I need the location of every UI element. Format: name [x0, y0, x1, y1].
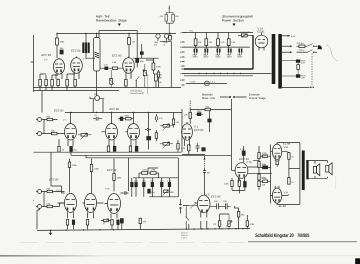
wire V1 grid node: [190, 110, 209, 120]
tube V6b row3: [105, 194, 121, 219]
terminal strip ticks: [180, 32, 185, 86]
wire riser x42 to row2: [41, 91, 43, 113]
cathode cap V1 mixer: [196, 143, 200, 152]
resistor R-plate-V3 4,7k: [56, 34, 66, 59]
wire tone right riser: [181, 109, 183, 152]
tube V2b ECC82: [102, 108, 120, 146]
svg-text:ECC 83: ECC 83: [49, 179, 59, 182]
wire NTC riser: [282, 61, 298, 78]
svg-text:Hall ein/aus: Hall ein/aus: [131, 90, 143, 93]
wire B+ riser row2: [96, 88, 98, 96]
text riser labels: [158, 74, 162, 85]
resistor grid stopper row2 jack2: [44, 129, 65, 134]
mains cord curve: [326, 45, 338, 62]
cathode resistor 2: [51, 75, 54, 91]
cathode capacitor 2: [57, 79, 60, 88]
wire top bus: [57, 33, 176, 35]
tube V1a row3: [58, 194, 77, 219]
reverb spring unit: [94, 34, 101, 88]
wire plate V4b right: [86, 57, 159, 59]
wire tone bottom: [149, 196, 178, 198]
capacitor V5 grid input: [179, 199, 182, 214]
switch linkage dashed: [311, 54, 313, 88]
resistor 470k right: [152, 58, 162, 74]
wire interstage feed 2: [86, 155, 178, 197]
cathode cap V2b: [113, 146, 116, 151]
svg-text:350V: 350V: [237, 56, 243, 59]
wire V5 feed from row2: [203, 156, 211, 195]
text Hall ein/aus: [131, 90, 144, 96]
svg-text:ECC 82: ECC 82: [112, 55, 122, 58]
svg-text:ECC 82: ECC 82: [211, 196, 221, 199]
capacitor electrolytic bank 3: [215, 49, 221, 59]
tube V5 driver ECC82: [196, 194, 221, 218]
cathode cap V6a: [135, 146, 138, 151]
wire V7a couplings: [232, 160, 272, 193]
wire B+ riser row3: [50, 152, 52, 186]
svg-text:350V: 350V: [227, 56, 233, 59]
tube V1 mixer ECC83: [182, 122, 204, 146]
svg-text:Ⅱ: Ⅱ: [33, 200, 34, 203]
cathode capacitor V3: [45, 75, 48, 91]
cathode cap V2a: [70, 147, 78, 152]
NTC resistor box 2: [296, 74, 306, 79]
svg-text:1M: 1M: [132, 41, 135, 44]
resistor below V7a 1k: [238, 178, 240, 190]
resistor grid jack2 row3: [44, 202, 65, 207]
faint cabinet mark: [335, 176, 337, 189]
wire bottom bus 1: [34, 87, 182, 89]
capacitor electrolytic bank 2: [203, 49, 209, 59]
cathode cap V6b row3: [117, 220, 119, 225]
svg-text:100p: 100p: [197, 110, 203, 113]
wire mixer long riser: [231, 99, 233, 170]
resistor tone top 2: [150, 169, 159, 175]
svg-text:V 9: V 9: [284, 192, 289, 195]
tube V7a phase splitter: [232, 158, 253, 183]
svg-text:V 7a: V 7a: [246, 161, 252, 164]
cathode cap V1a row3: [72, 220, 74, 225]
wire heater 6,3V arrow: [282, 35, 296, 38]
potentiometer treble row2: [160, 124, 173, 131]
section divider connector: [220, 96, 247, 98]
cathode resistor group V3: [39, 74, 42, 91]
svg-text:350V: 350V: [193, 56, 199, 59]
svg-text:6,3V~: 6,3V~: [191, 80, 197, 83]
capacitor tone 5: [167, 178, 172, 197]
grid capacitor mid left: [261, 163, 271, 169]
ground bus: [37, 229, 250, 231]
capacitor tone 2: [142, 178, 146, 197]
fuse Si 0,8A: [297, 42, 308, 47]
svg-text:V 8: V 8: [284, 146, 289, 149]
wire HT mid rail: [184, 46, 250, 48]
svg-text:ECC 82: ECC 82: [107, 169, 117, 172]
node dots heater rail: [198, 73, 241, 74]
wire heater rail: [184, 73, 272, 75]
node dots on top bus: [56, 33, 170, 34]
jack input I-2: [33, 192, 44, 209]
svg-text:350V: 350V: [203, 56, 209, 59]
cathode resistor V1b row3: [86, 220, 88, 226]
cathode resistor V4b: [125, 79, 128, 88]
lamp filter B+ row2: [90, 93, 104, 101]
svg-text:Si 0,8A: Si 0,8A: [297, 42, 305, 45]
cathode resistor V4a: [66, 74, 69, 91]
svg-text:Schaltbild Kingstar 20: Schaltbild Kingstar 20: [255, 233, 294, 239]
svg-text:Reverb on/off: Reverb on/off: [131, 92, 144, 95]
potentiometer balance: [226, 214, 232, 229]
tube V2a ECC83: [54, 110, 77, 147]
tube V3 ECC83 triode: [42, 54, 65, 79]
wire jack return riser: [160, 41, 171, 87]
resistor plate V1b row3: [90, 159, 99, 194]
svg-text:6,3V: 6,3V: [291, 35, 296, 38]
jack input II-1: [36, 118, 44, 122]
capacitor coupling row3 a: [121, 191, 129, 195]
power transformer primary bar: [272, 34, 276, 84]
resistor mid row2: [155, 130, 157, 141]
text ECC82 row3: [105, 169, 117, 191]
header Hall-Teil / Reverberation Stage: [96, 15, 127, 27]
voltage note text: [181, 232, 189, 240]
wire row2 plate rail: [65, 112, 182, 114]
wire row3 upper link: [51, 186, 65, 193]
jack riser capacitor: [140, 44, 143, 58]
wire tank to V4b grid: [100, 67, 123, 69]
svg-text:350V: 350V: [215, 56, 221, 59]
text Endstufe Output Stage: [249, 94, 266, 100]
resistor 2 right column: [155, 74, 162, 88]
resistor V7a tail: [237, 208, 245, 229]
wire tone slider riser: [128, 158, 130, 191]
tube V9 EL84: [272, 186, 288, 208]
resistor pilot dropper: [297, 65, 300, 70]
resistor plate V6b row3: [113, 159, 122, 192]
resistor V5 right: [246, 215, 255, 229]
wire tone mid bus: [133, 177, 178, 179]
capacitor C coupling 10n: [60, 47, 64, 54]
ground stubs row3: [37, 209, 247, 230]
resistor below V7a 220k: [224, 178, 233, 190]
capacitor below V7a: [244, 182, 247, 191]
resistor bottom row3: [139, 218, 147, 229]
capacitor electrolytic bank 5: [237, 49, 243, 59]
potentiometer bass row2: [160, 142, 173, 149]
resistor 1M above V4b: [128, 34, 136, 58]
resistor right column extra: [157, 70, 159, 88]
loudspeaker LS2: [326, 163, 332, 175]
resistor on riser 4,7k: [169, 34, 172, 41]
svg-text:Reverberation Stage: Reverberation Stage: [96, 19, 127, 23]
mains switch pole 2: [307, 50, 317, 53]
capacitor electrolytic bank 1: [193, 49, 199, 59]
svg-text:out: out: [154, 43, 157, 46]
capacitor V7a plate 4,7n: [240, 146, 245, 163]
resistor grid V1: [184, 108, 191, 124]
power transformer secondary bar: [278, 34, 282, 89]
svg-text:Power Section: Power Section: [222, 19, 244, 23]
resistor smoothing 4: [227, 33, 236, 49]
output transformer secondary bar: [306, 160, 308, 179]
capacitor electrolytic 25u row2: [147, 137, 151, 140]
wire reverb left stub: [31, 61, 34, 63]
resistor mixer right 4: [258, 181, 266, 190]
resistor smoothing 2: [205, 33, 213, 49]
svg-text:EZ 81: EZ 81: [258, 31, 266, 34]
capacitor coupling mid: [118, 117, 123, 121]
wire row2 bottom bus: [34, 151, 182, 153]
wire reverb internal: [40, 58, 153, 75]
svg-text:1M: 1M: [176, 121, 179, 124]
output transformer primary line: [299, 143, 301, 205]
wire tank top feed: [99, 31, 137, 56]
svg-text:EL 84: EL 84: [283, 143, 290, 146]
capacitor coupling row2 1n: [93, 114, 102, 121]
capacitor treble 4,7n: [156, 114, 164, 122]
potentiometer tone row3: [163, 190, 175, 196]
resistor plate V1a row3: [68, 159, 77, 193]
screen resistor V9: [282, 178, 295, 196]
faint crease line left: [20, 242, 245, 244]
NTC resistor box 1: [296, 60, 306, 65]
svg-text:≙ 52 V: ≙ 52 V: [181, 236, 188, 239]
wire tone input riser: [148, 113, 150, 150]
wire row3 links: [58, 192, 129, 204]
wire mains line 2: [282, 51, 308, 53]
svg-text:ECC 83: ECC 83: [54, 110, 64, 113]
wire V1 feed dashed: [189, 101, 191, 109]
tube V4a ECC82 triode: [71, 50, 87, 80]
wire secondary top: [309, 160, 328, 162]
resistor grid jack1 row3: [44, 187, 58, 192]
tube V8 EL84: [272, 143, 290, 161]
resistor tone out 470k: [177, 140, 179, 152]
corner scan mark: [355, 258, 360, 264]
wire tone top links: [139, 168, 159, 178]
svg-text:Output Stage: Output Stage: [249, 97, 266, 100]
resistor tone out 1M: [172, 113, 179, 128]
mains switch pole 1: [307, 44, 317, 47]
capacitor 50u row3: [148, 189, 156, 194]
resistor smoothing 1: [194, 33, 202, 49]
wire bottom bus 2: [34, 90, 120, 92]
selenium rectifier B250C75: [238, 31, 253, 37]
svg-text:ECC 83: ECC 83: [42, 54, 52, 57]
header Stromversorgungsteil / Power Section: [222, 15, 253, 27]
svg-text:EL 84: EL 84: [279, 205, 286, 208]
resistor mixer right 2: [258, 162, 267, 175]
tube pin seals: [56, 69, 279, 213]
svg-text:1,5M: 1,5M: [150, 169, 155, 172]
wire heater rail 2: [184, 75, 253, 77]
capacitor V5 out 2: [222, 200, 230, 209]
svg-text:Mixer Unit: Mixer Unit: [202, 97, 215, 100]
capacitor tone left: [131, 178, 134, 197]
svg-text:82k: 82k: [160, 15, 163, 18]
svg-text:82k: 82k: [175, 15, 178, 18]
resistor 68k horizontal: [205, 105, 215, 110]
potentiometer Hall volume: [109, 70, 114, 88]
resistor coupling 560k: [123, 114, 134, 120]
cathode resistor V2a: [58, 139, 65, 152]
jack Hall output: [154, 34, 160, 47]
svg-text:1M: 1M: [159, 77, 162, 80]
svg-text:B 250 C75: B 250 C75: [240, 31, 251, 34]
resistor V5 tail 1: [213, 214, 221, 229]
faint crease line lower: [0, 255, 360, 257]
cathode resistor V4a-2: [74, 79, 77, 88]
jack Hall input: [164, 34, 169, 47]
tube V4b ECC82 triode: [112, 55, 134, 80]
capacitor bottom row3: [120, 219, 123, 230]
output balance bridge network: [160, 5, 179, 33]
wire screen tap to OT: [289, 167, 300, 169]
capacitor V1 plate: [208, 119, 211, 132]
title underline: [248, 241, 357, 243]
wire HT return heavy: [184, 35, 253, 69]
output transformer core bar: [302, 151, 305, 191]
wire mains line 1 to fuse: [282, 45, 293, 47]
wire V1 mixer bottom: [182, 154, 205, 156]
capacitor electrolytic 50u: [136, 55, 145, 67]
capacitor tone 3: [150, 178, 154, 197]
svg-text:ECC 82: ECC 82: [71, 50, 81, 53]
capacitor V5 out 1: [214, 200, 222, 209]
chassis ground symbol: [49, 230, 53, 235]
screen resistor V8: [282, 152, 295, 178]
wire B+ drops row2: [90, 97, 103, 113]
wire HT top bus: [184, 32, 253, 34]
tube V1b row3: [83, 194, 97, 219]
potentiometer reverb mix: [143, 64, 148, 88]
cathode resistor V1 mixer: [181, 145, 190, 155]
reverb drive transformer Tr: [82, 34, 89, 59]
svg-text:700/925: 700/925: [297, 233, 309, 239]
wire secondary bottom: [309, 177, 328, 179]
wire output left riser: [271, 145, 273, 204]
wire speaker stubs: [315, 161, 327, 179]
reverb switch Hall ein/aus: [136, 76, 140, 87]
electrolytic V1 mixer: [202, 148, 205, 151]
tube V6a ECC82: [126, 113, 140, 147]
capacitor tone 4: [160, 178, 164, 197]
svg-text:220 V~: 220 V~: [299, 49, 307, 52]
jack input II-2: [36, 120, 44, 136]
capacitor input V1: [196, 110, 203, 116]
cathode resistor V2b: [107, 146, 109, 152]
switch V5 lower: [186, 206, 189, 230]
wire left vertical bus: [33, 35, 35, 92]
dark scan edge bottom left: [0, 255, 102, 257]
svg-text:ECC 82: ECC 82: [110, 108, 120, 111]
cathode resistor V6a: [129, 146, 131, 152]
pilot lamp La1: [186, 80, 227, 85]
resistor grid stopper row2: [44, 115, 58, 120]
resistor grid V4b: [112, 61, 118, 70]
svg-text:V 6a: V 6a: [105, 188, 110, 191]
wire interstage feed 1: [71, 152, 232, 155]
node dots row2 rail: [70, 112, 149, 113]
potentiometer volume row2: [78, 133, 92, 140]
text ECC83 row3: [49, 179, 61, 193]
wire mixer top right: [215, 109, 232, 111]
svg-text:V 5: V 5: [206, 194, 211, 197]
wire V9 plate to OT: [277, 203, 300, 204]
ground bus node dots: [50, 228, 244, 231]
grid resistor upper left: [261, 152, 271, 158]
capacitor tone 1: [134, 178, 138, 197]
capacitor mid row2: [145, 129, 151, 131]
resistor mixer right 3: [258, 174, 266, 181]
jack input I-1: [36, 190, 44, 194]
loudspeaker LS1: [313, 164, 319, 176]
wire V8 plate to OT: [277, 143, 300, 145]
resistor smoothing 3: [217, 33, 226, 49]
cathode resistor V1a row3: [66, 220, 68, 226]
mains plug: [317, 45, 322, 49]
resistor tone top 1: [139, 169, 150, 175]
capacitor electrolytic bank 4: [227, 49, 233, 59]
cathode resistor V8: [276, 161, 279, 167]
wire V5 bottom area: [210, 206, 239, 214]
potentiometer V5 grid: [183, 202, 196, 208]
grid resistor lower left: [261, 177, 271, 183]
cathode resistor V6b row3: [111, 220, 113, 226]
resistor mixer right 1: [258, 146, 267, 162]
svg-text:ECC 83: ECC 83: [194, 129, 204, 132]
svg-text:1,5M: 1,5M: [142, 169, 147, 172]
capacitor series 4,7n: [104, 64, 109, 70]
dashed pot linkage: [146, 77, 148, 95]
rectifier tube V10 EZ81: [255, 28, 268, 51]
potentiometer bottom row3: [101, 219, 111, 225]
wire mains bottom bus: [282, 87, 314, 89]
text Mischteil Mixer Unit: [202, 94, 215, 100]
